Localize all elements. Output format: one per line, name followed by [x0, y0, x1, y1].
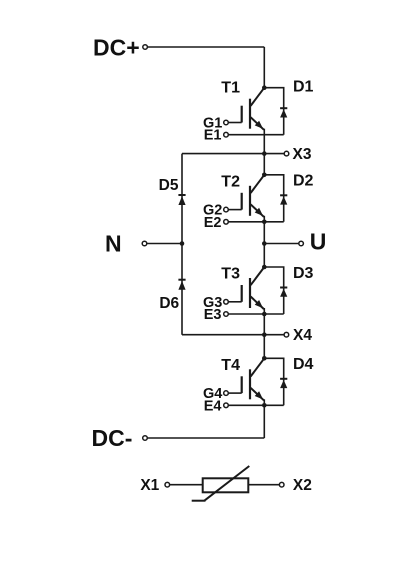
svg-text:D4: D4 [293, 356, 314, 373]
wire gate G3 [228, 301, 241, 303]
junction U [262, 241, 267, 246]
svg-text:X4: X4 [293, 327, 312, 344]
terminal E1 [224, 132, 229, 137]
svg-text:D6: D6 [159, 295, 179, 312]
wire D2 branch [264, 175, 283, 222]
junction T1 collector [262, 85, 267, 90]
svg-text:N: N [105, 231, 122, 257]
terminal G3 [224, 300, 229, 305]
diode D1 [280, 108, 287, 117]
junction T2 emitter [262, 220, 267, 225]
svg-text:D5: D5 [159, 177, 179, 194]
terminal U [299, 241, 304, 246]
wire U to T3 collector [263, 244, 265, 268]
svg-text:U: U [310, 229, 327, 255]
svg-text:E2: E2 [204, 215, 222, 231]
thermistor R1 stroke [192, 466, 250, 501]
wire X4 row [182, 334, 284, 336]
wire D3 branch [264, 267, 283, 314]
junction T3 collector [262, 265, 267, 270]
diode D2 [280, 195, 287, 204]
wire gate G2 [228, 209, 241, 211]
svg-text:T2: T2 [221, 173, 240, 190]
wire U row [264, 243, 299, 245]
terminal G4 [224, 391, 229, 396]
wire thermistor to X2 [248, 484, 279, 486]
junction N rail [180, 241, 185, 246]
svg-text:T4: T4 [221, 357, 240, 374]
wire below T1 emitter [263, 129, 265, 154]
svg-text:E4: E4 [204, 398, 222, 414]
junction X4 [262, 332, 267, 337]
wire X1 to thermistor [170, 484, 203, 486]
transistor T4 [242, 358, 265, 400]
svg-text:X3: X3 [293, 146, 312, 163]
terminal X2 [279, 482, 284, 487]
transistor T2 [242, 175, 265, 217]
terminal E2 [224, 220, 229, 225]
transistor T3 [242, 267, 265, 309]
svg-text:D3: D3 [293, 265, 314, 282]
svg-text:DC-: DC- [92, 425, 133, 451]
terminal DC+ [143, 45, 148, 50]
thermistor R1 body [203, 478, 249, 492]
wire emitter row E4 [228, 404, 283, 406]
wire DC- horizontal [147, 437, 264, 439]
svg-text:E3: E3 [204, 307, 222, 323]
terminal X4 [284, 332, 289, 337]
wire below T2 emitter [263, 216, 265, 244]
junction T2 collector [262, 173, 267, 178]
terminal DC- [143, 436, 148, 441]
junction T4 collector [262, 356, 267, 361]
wire emitter row E2 [228, 221, 283, 223]
svg-text:D2: D2 [293, 173, 314, 190]
terminal E3 [224, 312, 229, 317]
terminal N [142, 241, 147, 246]
diode D4 [280, 379, 287, 388]
terminal X1 [165, 482, 170, 487]
wire DC+ to T1 collector [263, 47, 265, 88]
wire D1 branch [264, 88, 283, 135]
wire emitter row E1 [228, 134, 283, 136]
transistor T1 [242, 88, 265, 130]
svg-text:T3: T3 [221, 266, 240, 283]
diode D3 [280, 288, 287, 297]
terminal X3 [284, 151, 289, 156]
wire gate G1 [228, 122, 241, 124]
wire D4 branch [264, 358, 283, 405]
terminal E4 [224, 403, 229, 408]
svg-text:T1: T1 [221, 80, 240, 97]
wire X3 to T2 collector [263, 154, 265, 175]
wire clamp rail [181, 154, 183, 335]
wire gate G4 [228, 392, 241, 394]
diode D5 [178, 195, 185, 205]
wire below T3 emitter [263, 308, 265, 335]
svg-text:D1: D1 [293, 79, 314, 96]
junction X3 [262, 151, 267, 156]
terminal G2 [224, 207, 229, 212]
wire emitter row E3 [228, 313, 283, 315]
svg-text:E1: E1 [204, 128, 222, 144]
diode D6 [178, 280, 185, 290]
wire DC+ horizontal [147, 46, 264, 48]
junction T3 emitter [262, 312, 267, 317]
svg-text:DC+: DC+ [93, 35, 140, 61]
wire X4 to T4 collector [263, 335, 265, 359]
wire X3 row [182, 153, 284, 155]
terminal G1 [224, 120, 229, 125]
wire N to rail [147, 243, 182, 245]
wire below T4 emitter [263, 399, 265, 438]
svg-text:X1: X1 [140, 477, 159, 494]
svg-text:X2: X2 [293, 477, 312, 494]
junction T4 emitter [262, 403, 267, 408]
